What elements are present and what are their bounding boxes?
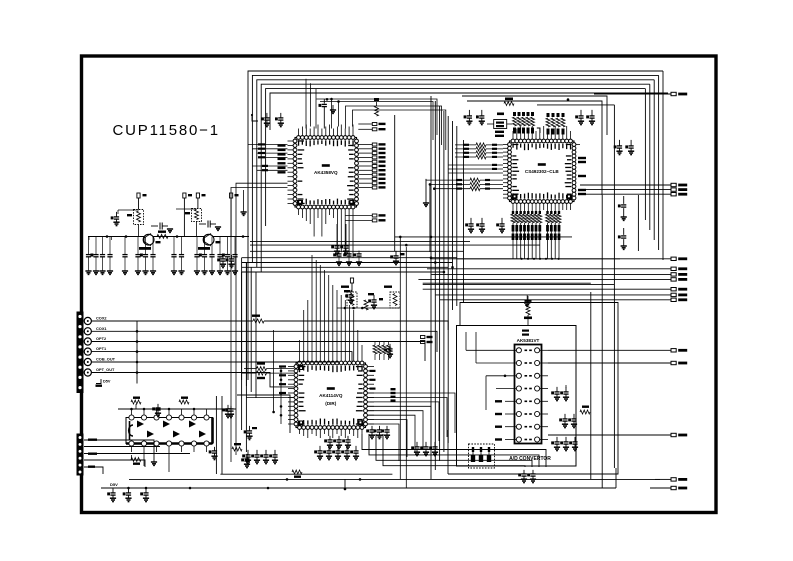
photodiode box D1 [134, 210, 144, 225]
wire bus right verticals [662, 71, 664, 260]
capacitor C u2 bl-1 [470, 218, 472, 224]
wire U2 side leads [503, 144, 508, 146]
wire COX2 [91, 320, 253, 322]
ground stub above U1 [332, 105, 334, 110]
wire bus mid-right horizontals [423, 282, 591, 284]
capacitor C opt2 [151, 225, 158, 227]
net labels U2 upper-left [495, 131, 504, 133]
resistors U2 left group1 [455, 144, 476, 146]
wire J2-4 [84, 460, 145, 467]
capacitor group below U4 [523, 470, 525, 474]
optical receiver box RX1 [347, 292, 357, 308]
wire bottom vertical ties [344, 479, 346, 489]
op-amp U3 DIR AK4114VQ [296, 363, 366, 428]
capacitor bank U3 below1 [247, 450, 249, 455]
net labels U1 top pair [358, 123, 372, 125]
testpoint TP1 [137, 193, 140, 198]
capacitor C below U1 b [345, 241, 347, 246]
wire above U2 bus [537, 104, 614, 106]
capacitor bank U3 below2 [319, 446, 321, 451]
wire vertical right of U1 [394, 115, 396, 251]
capacitor C21 [619, 140, 621, 146]
cap pair on vertical [623, 196, 625, 204]
capacitor C below U1 a [336, 241, 338, 246]
capacitor group U4 right-1 [556, 387, 558, 392]
wire mid horizontal 251 [250, 250, 464, 252]
wire U2 bottom leads [512, 203, 514, 210]
capacitor C left pair a [222, 255, 224, 259]
capacitor C U5 bottom [214, 447, 216, 451]
capacitor C U5 topright2 [227, 405, 229, 409]
resistor R u3b [242, 372, 257, 374]
svg-text:OPT1: OPT1 [96, 346, 107, 351]
resistor R below U3 [292, 470, 302, 474]
wire mid horizontal 245 [250, 244, 540, 246]
capacitor C u2 topright1 [580, 110, 582, 116]
testpoint TP2 [183, 193, 186, 198]
capacitor group U4 right-3 [556, 437, 558, 442]
wire U3 pin8 feed [246, 397, 294, 399]
net stub SP-3 [580, 193, 671, 195]
resistor R u3a [244, 368, 257, 370]
wire U3 left leads [288, 366, 294, 368]
optical receiver box RX2 [390, 292, 400, 308]
capacitor C u2 bl-2 [481, 218, 483, 224]
svg-text:COX1: COX1 [96, 326, 107, 331]
U2 right pin labels [578, 157, 586, 159]
wire bottom long2 [220, 473, 392, 475]
svg-text:OPT_OUT: OPT_OUT [96, 367, 115, 372]
net stub D-3 [418, 278, 671, 280]
capacitor C opt1 [116, 212, 118, 217]
wire COX1 [91, 331, 437, 352]
wire osc leads [487, 123, 494, 125]
wire R-OUT feed [270, 93, 668, 130]
wire U2 top leads [512, 131, 514, 139]
wire right vertical x638 [637, 195, 639, 251]
op-amp U2 DSP CS492302-CLB [510, 141, 575, 202]
ground J2 [153, 448, 155, 462]
resistor array above U2 [513, 112, 516, 116]
wire bottom long1 [129, 478, 660, 480]
wire U4 right leads [540, 349, 548, 351]
wire loop around ADC [448, 303, 618, 475]
transistor Q2 [203, 234, 214, 245]
capacitor bank U3 below3 [329, 436, 331, 440]
wire U1 left long2 [231, 188, 288, 463]
resistor bank U3 right-top [373, 345, 377, 354]
wire D5V bracket [96, 379, 101, 384]
border frame [82, 56, 717, 513]
wire OPT1 [91, 352, 352, 362]
capacitor C left of U3 [230, 406, 232, 409]
wire bus to U1 left [248, 144, 288, 146]
resistor R right of U4 [580, 410, 590, 414]
wire D5V rail [101, 487, 616, 489]
wire bus U1top-U2 [305, 79, 307, 129]
capacitor C17 [468, 110, 470, 116]
wire OPT2 [91, 342, 425, 362]
wire OPT_OUT [91, 373, 294, 387]
capacitor bank U3 right-bot [371, 426, 373, 430]
net stub R-OUT [594, 93, 671, 95]
net labels U1 outputs [358, 144, 372, 146]
net stub DL_I [457, 258, 671, 260]
capacitor C top center U1 [323, 99, 325, 104]
labels J2 [88, 439, 97, 441]
capacitor C above U1 right [280, 113, 282, 118]
wire central vertical extra [463, 140, 465, 303]
wire mid horizontal 237 [395, 236, 572, 238]
net stub AM-IN [655, 478, 671, 480]
net stub MIN [548, 434, 671, 436]
svg-text:CUP11580−1: CUP11580−1 [113, 122, 220, 139]
A/D converter box [457, 326, 577, 467]
testpoint TP4 [230, 193, 233, 198]
resistor R U5 bottom [131, 458, 141, 462]
wire bus bottom nest [362, 434, 546, 467]
U3 right pin labels [370, 370, 376, 372]
svg-text:(DIR): (DIR) [325, 401, 336, 406]
jumper block dashed box [469, 444, 495, 468]
net stub M-2 [436, 294, 671, 296]
net stub M-1 [423, 288, 671, 290]
wire COB_OUT [91, 360, 338, 363]
wire opt q2 links [176, 208, 197, 210]
resistor R top U2 [504, 102, 514, 106]
junction dots mid bus [434, 261, 437, 264]
photodiode box D2 [192, 209, 202, 222]
net stub M-3 [440, 299, 671, 301]
small corner wire [252, 115, 258, 121]
hex inverter U5 [126, 418, 213, 444]
wire U1 bottom leads [298, 209, 300, 215]
wire U3 left tie [280, 367, 282, 425]
capacitor C22 [630, 140, 632, 146]
resistor R U5 top [131, 400, 141, 404]
capacitor C d5v-1 [112, 489, 114, 493]
capacitor C18 [481, 110, 483, 116]
capacitor C u3 bl [416, 442, 418, 447]
wire bus to U1 left lower [252, 165, 287, 167]
capacitor C opt3 [199, 223, 206, 225]
capacitor C u2 bl-3 [501, 218, 503, 224]
wire stub with ground [425, 179, 427, 203]
capacitor C U5 bottom2 [246, 454, 248, 459]
labels above U4 [522, 330, 529, 332]
resistor R2 U5 top [179, 400, 189, 404]
net stub SP-1 [580, 184, 671, 186]
wire mid horizontal 241 [250, 241, 470, 243]
ground U1 left [243, 190, 245, 212]
connector J2 frame [77, 434, 84, 476]
resistor R near U1 [375, 106, 379, 116]
capacitor C U5 topright [157, 404, 159, 408]
wire U1 top leads [298, 129, 300, 136]
wire bus central verticals [430, 96, 432, 330]
U2 left pin labels [492, 164, 497, 166]
capacitor C u3 top [350, 290, 352, 295]
svg-text:COB_OUT: COB_OUT [96, 357, 116, 362]
wire U5 bottom rail [131, 455, 133, 460]
capacitor C above U1 left [266, 113, 268, 118]
wire U1 left leads [288, 140, 294, 142]
ground U2 bottom [526, 295, 528, 303]
wire J1 vertical tie [136, 321, 138, 384]
testpoint TP3 [196, 193, 199, 198]
svg-text:AK4358VQ: AK4358VQ [314, 170, 338, 175]
capacitor C midbus a [338, 251, 340, 254]
wire right verticals lower [590, 292, 592, 457]
connector J1 frame [77, 312, 84, 394]
connector jacks J1 [84, 317, 91, 324]
net stub CH-LS [548, 362, 671, 364]
svg-text:CS492302−CLB: CS492302−CLB [525, 169, 560, 174]
capacitor C midbus b [348, 251, 350, 254]
wire opt q1 links [118, 209, 139, 211]
wire U5 pin leads [131, 409, 133, 415]
wire J2-1 [84, 440, 154, 448]
svg-text:AK4114VQ: AK4114VQ [319, 393, 343, 398]
svg-text:D5V: D5V [103, 380, 111, 384]
wire U3 top leads [299, 340, 301, 361]
svg-text:COX2: COX2 [96, 316, 107, 321]
resistor bank U2 bottom [512, 210, 514, 214]
capacitor C midbus c [358, 251, 360, 254]
capacitor C left pair b [231, 255, 233, 259]
wire U3 left drop [273, 330, 275, 412]
capacitor C between RX [373, 295, 375, 300]
net stub D-2 [431, 273, 671, 275]
net labels U1 bottom pair [345, 215, 372, 217]
capacitor C d5v-3 [145, 489, 147, 493]
U3 left pin labels [279, 365, 286, 367]
capacitor bank optical [88, 237, 90, 255]
wire U3 right leads [367, 366, 374, 368]
wire U1 left long1 [236, 183, 288, 455]
testpoint labels [188, 194, 192, 196]
resistor R u3 top [364, 300, 368, 310]
wire J2-2 [84, 446, 160, 448]
resistor R mid COX2 [252, 315, 260, 317]
net label pair mid [421, 336, 425, 339]
svg-text:A/D CONVERTOR: A/D CONVERTOR [509, 456, 551, 462]
wires U2 left group3 [448, 164, 503, 166]
testpoint above RX1 [350, 278, 353, 283]
wire U3 right fanout [367, 393, 455, 433]
op-amp U4 ADC AK5381VT [515, 345, 542, 444]
wire U5 top rail [118, 408, 236, 410]
svg-text:AK5381VT: AK5381VT [517, 338, 540, 343]
net stub CH-OS [548, 349, 671, 351]
capacitor C U5 right [249, 426, 251, 431]
capacitor bank labels [90, 254, 93, 257]
wire junction bus U2 bottom [430, 258, 620, 260]
wire U3 bottom leads [299, 429, 301, 434]
net stub D-1 [427, 268, 671, 270]
wire bus top loop [248, 71, 663, 258]
resistor R above U4 [527, 296, 529, 305]
wire U3 top rail [337, 307, 400, 309]
net stub DIN [650, 487, 671, 489]
wire central verticals lower [430, 330, 432, 479]
resistors U2 left group2 [426, 179, 471, 181]
blob column U3 right [391, 388, 396, 390]
transistor Q1 [143, 234, 154, 245]
svg-text:OPT2: OPT2 [96, 336, 107, 341]
oscillator X1 box [494, 120, 507, 129]
wire bus mid-left verticals [241, 258, 243, 380]
wire left cap bus [88, 237, 90, 241]
op-amp U1 DAC AK4358VQ [295, 138, 357, 208]
U1 left pin labels [278, 144, 286, 146]
wire J2-3 [84, 453, 190, 455]
capacitor C midbus d [395, 251, 397, 256]
resistor R opt_h [157, 234, 168, 238]
capacitor C d5v-2 [128, 489, 130, 493]
capacitor C u2 topright2 [591, 110, 593, 116]
cap C u3 top2 [389, 344, 391, 349]
wire J2-5 [84, 467, 103, 474]
wire optical rail [88, 236, 249, 238]
wire U4 left leads [466, 349, 516, 351]
resistor R U5 bottom2 [232, 447, 242, 451]
svg-text:D5V: D5V [110, 482, 118, 487]
net stub SP-2 [580, 189, 671, 191]
wire bus mid horizontals [242, 257, 457, 259]
capacitor group U4 right-2 [564, 414, 566, 419]
